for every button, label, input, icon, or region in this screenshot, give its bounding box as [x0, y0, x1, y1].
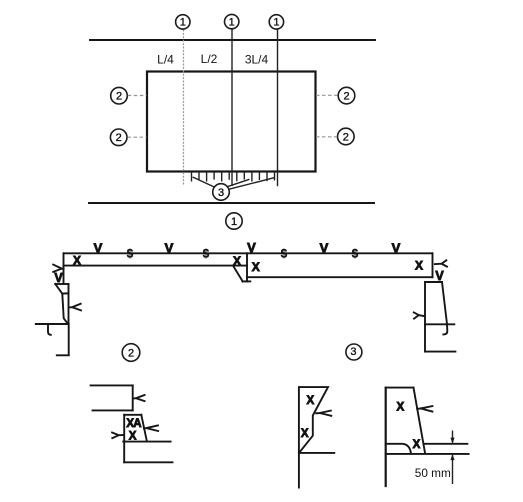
svg-text:3L/4: 3L/4	[245, 53, 269, 67]
top slab support edge line	[90, 39, 375, 41]
right beam soffit	[247, 276, 433, 278]
svg-text:3: 3	[218, 187, 224, 199]
det3 left profile	[299, 387, 328, 487]
bubble 1 title of elevation	[226, 213, 242, 229]
section line 1b (L/2)	[231, 29, 233, 186]
svg-text:X: X	[415, 259, 423, 273]
det2 beam top	[91, 384, 133, 386]
beam top chord line	[64, 252, 433, 254]
svg-text:2: 2	[116, 91, 122, 103]
svg-text:$: $	[203, 248, 210, 260]
svg-text:1: 1	[231, 216, 237, 228]
svg-text:3: 3	[350, 346, 356, 358]
junction diagonal	[233, 266, 243, 282]
left beam soffit	[64, 265, 248, 267]
leader fan line mid	[227, 179, 249, 186]
det3 right wall slant	[414, 388, 426, 454]
left support arrow	[69, 304, 81, 311]
leader fan line right	[229, 178, 275, 190]
svg-text:X: X	[73, 254, 81, 268]
svg-text:V: V	[165, 240, 174, 255]
left end arrow	[53, 265, 63, 272]
svg-text:L/4: L/4	[157, 53, 174, 67]
det2 nib top	[124, 414, 141, 416]
left corbel right edge	[68, 284, 70, 324]
svg-text:X: X	[413, 439, 421, 451]
leader dash right-lower	[316, 136, 337, 138]
det2 nib left edge	[123, 415, 125, 442]
junction foot	[243, 280, 251, 282]
svg-text:2: 2	[343, 131, 349, 143]
svg-text:$: $	[352, 248, 359, 260]
svg-text:V: V	[54, 271, 63, 285]
bubble 1 top-b	[225, 14, 239, 28]
right wall bottom	[425, 351, 455, 353]
right wall slant edge	[442, 282, 447, 324]
det2 arrow at edge	[134, 395, 145, 401]
right wall left edge	[424, 282, 426, 352]
leader dash right-upper	[316, 94, 338, 96]
det2 nib arrow	[144, 425, 158, 431]
leader fan line left	[193, 177, 215, 187]
section line 1c (3L/4)	[277, 30, 279, 187]
svg-text:V: V	[247, 240, 256, 255]
svg-text:X: X	[396, 402, 404, 414]
svg-text:50 mm: 50 mm	[415, 466, 451, 480]
svg-text:$: $	[127, 248, 134, 260]
section line 1a (L/4, dotted)	[183, 30, 185, 186]
det3 right arrow	[417, 406, 432, 412]
left beam end vertical	[63, 253, 65, 284]
leader dash left-lower	[128, 136, 147, 138]
right beam end vertical	[432, 253, 434, 277]
det3 bearing line right	[424, 443, 467, 445]
left wall bottom	[57, 354, 69, 356]
right support arrow	[414, 312, 424, 318]
svg-text:1: 1	[273, 17, 279, 29]
det2 support bottom	[124, 461, 172, 463]
bubble 2 right-lower	[338, 128, 355, 145]
det2 nib slant	[141, 415, 147, 442]
bubble 2 left-lower	[110, 129, 127, 146]
bubble 3 detail title	[346, 344, 362, 360]
right wall top	[425, 281, 442, 283]
bubble 1 top-a	[176, 15, 190, 29]
left wall below edge	[68, 324, 70, 355]
bubble 1 top-c	[269, 15, 283, 29]
bubble 2 detail title	[122, 344, 140, 362]
det3 right wall left edge	[385, 388, 387, 486]
svg-text:2: 2	[116, 132, 122, 144]
svg-text:1: 1	[180, 17, 186, 29]
leader dash left-upper	[128, 95, 147, 97]
left floor line	[36, 323, 68, 325]
svg-text:V: V	[320, 240, 329, 255]
svg-text:V: V	[392, 240, 401, 255]
det2 ledge line	[123, 441, 170, 443]
svg-text:X: X	[129, 430, 137, 442]
left corbel cap bottom edge	[62, 292, 68, 294]
right floor line	[425, 323, 454, 325]
svg-text:2: 2	[343, 91, 349, 103]
dim arrow lower	[450, 454, 454, 484]
svg-text:V: V	[435, 269, 444, 283]
bubble 2 left-upper	[111, 87, 128, 104]
dim arrow upper	[450, 431, 454, 444]
det3 floor line	[386, 453, 469, 455]
det3 right wall top	[386, 387, 414, 389]
svg-text:X: X	[301, 428, 309, 440]
junction vertical	[246, 253, 248, 281]
right end arrow	[435, 260, 447, 266]
det2 beam right edge	[132, 385, 134, 410]
det3 bearing line with fillet	[386, 444, 411, 454]
det2 beam soffit	[93, 409, 133, 411]
svg-text:2: 2	[128, 347, 134, 359]
left corbel profile	[55, 284, 68, 324]
det2 left arrow	[112, 433, 123, 439]
right rebar hook	[443, 324, 447, 334]
plan rectangle (slab outline)	[147, 72, 316, 172]
svg-text:X: X	[306, 395, 314, 407]
svg-text:V: V	[94, 240, 103, 255]
det2 support left edge	[123, 442, 125, 463]
svg-text:1: 1	[229, 16, 235, 28]
bubble 2 right-upper	[338, 87, 355, 104]
left rebar hook	[48, 326, 51, 335]
svg-text:$: $	[281, 248, 288, 260]
svg-text:X: X	[233, 254, 241, 268]
left corbel top	[55, 283, 68, 285]
svg-text:X: X	[252, 260, 260, 274]
det3 left arrow	[316, 411, 331, 416]
hatch ticks under slab bottom edge	[192, 172, 275, 181]
svg-text:L/2: L/2	[201, 52, 218, 66]
bottom slab support edge line	[89, 202, 374, 204]
det3 left base line	[299, 452, 334, 454]
svg-text:XA: XA	[126, 418, 141, 430]
bubble 3 plan	[213, 184, 230, 201]
